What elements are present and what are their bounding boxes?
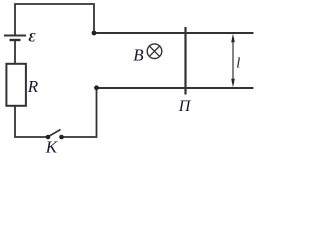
svg-text:Ɛ: Ɛ — [29, 30, 36, 45]
svg-text:П: П — [178, 98, 192, 115]
svg-text:B: B — [133, 46, 144, 65]
svg-text:R: R — [27, 77, 39, 96]
svg-text:K: K — [45, 137, 59, 156]
svg-text:l: l — [236, 56, 240, 72]
